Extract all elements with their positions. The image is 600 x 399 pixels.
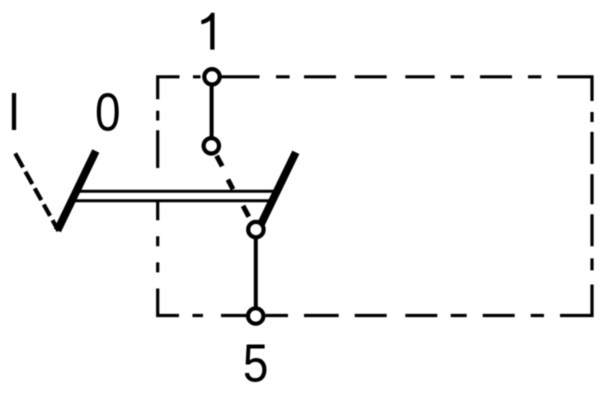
svg-text:0: 0 (95, 82, 121, 142)
svg-text:I: I (8, 82, 21, 142)
svg-text:5: 5 (243, 333, 269, 393)
